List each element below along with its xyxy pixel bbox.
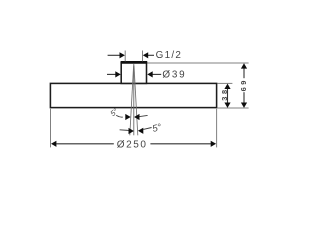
upper 5° right arrow (points left at centerline) [134,114,139,120]
spray line right [134,66,138,136]
dimension Ø250 right line [150,143,211,145]
svg-text:69: 69 [239,78,248,91]
extension line bottom right (from plate right edge) [216,109,218,148]
upper 5° right leader [140,115,148,116]
extension line top right (from connector top to 69 dim) [147,62,248,64]
centerline [133,64,135,135]
dimension 69 bottom arrow [241,103,247,108]
G1/2 dimension left arrow [108,52,125,58]
lower 5° left leader [120,129,129,132]
svg-text:38: 38 [220,87,229,100]
Ø39 dimension left arrow [107,71,121,77]
lower 5° right arrow (points left at right spray line) [138,128,143,134]
upper 5° annotation: leader from label [116,115,123,117]
upper 5° left arrow (points right at left spray line) [125,114,130,120]
svg-text:G1/2: G1/2 [156,50,183,61]
svg-text:Ø250: Ø250 [117,139,148,150]
dimension Ø250 right arrow [211,141,216,147]
dimension 69 top arrow [241,63,247,68]
connector thick top edge [121,61,148,64]
extension line from plate bottom right (for 38/69 dims) [218,107,249,109]
dimension Ø250 left line [56,143,114,145]
shower plate outline [50,83,216,107]
dimension 38 bottom arrow [224,103,230,108]
dimension 38 line [227,87,229,106]
lower 5° right leader [143,128,151,130]
connector body (Ø39 escutcheon) [121,63,146,84]
svg-text:Ø39: Ø39 [162,70,186,81]
lower 5° annotation: left arrow (points right at centerline) [129,128,134,134]
Ø39 dimension right arrow [147,71,161,77]
extension line bottom left (from plate left edge) [50,109,52,148]
G1/2 extension line left [124,51,126,62]
G1/2 extension line right [142,51,144,62]
G1/2 dimension right arrow [143,52,154,58]
extension line from plate top right (for 38 dim) [218,82,233,84]
dimension 38 top arrow [224,84,230,89]
spray line left [130,66,134,136]
dimension 69 line [243,66,245,78]
dimension Ø250 left arrow [51,141,56,147]
